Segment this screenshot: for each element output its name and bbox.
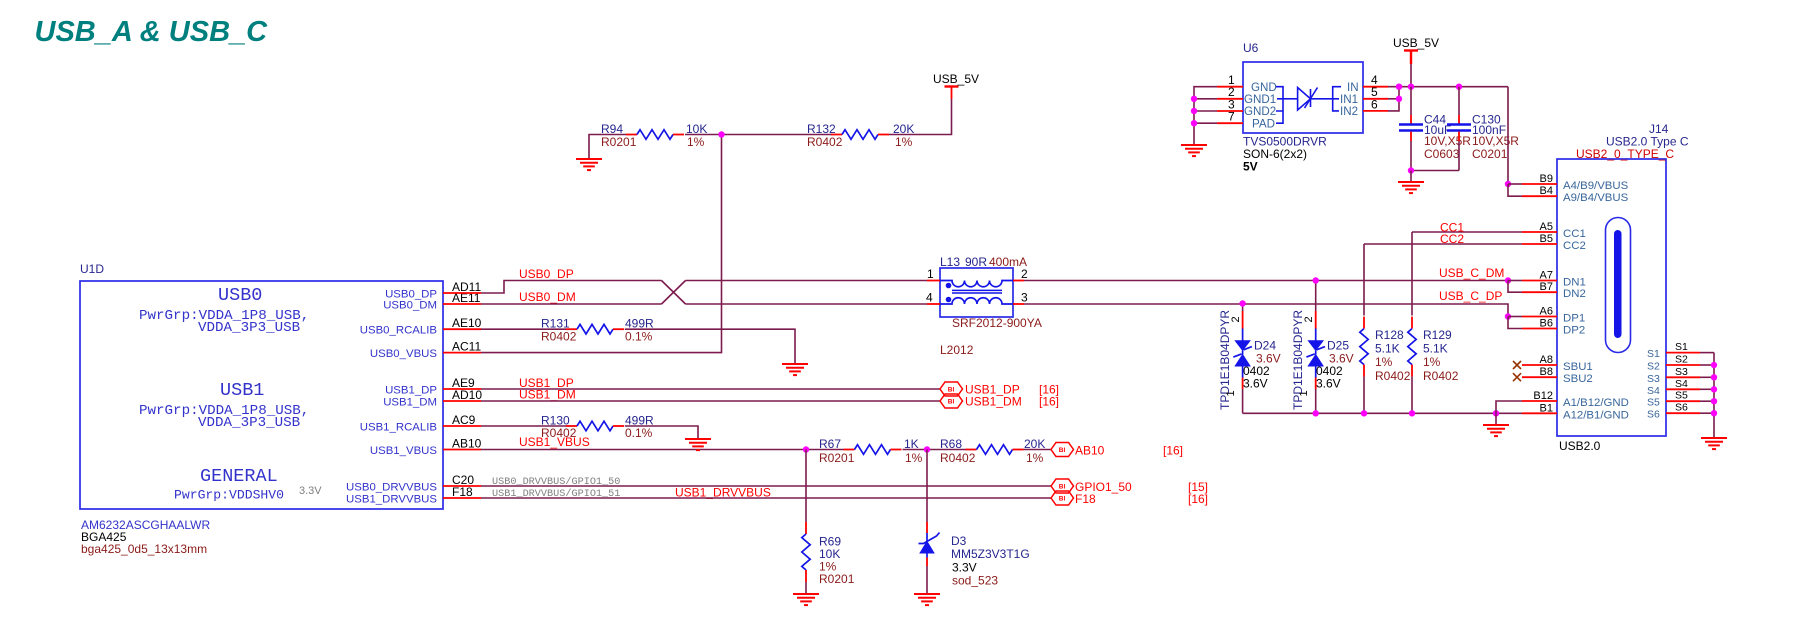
junction bus pin4	[1396, 84, 1402, 90]
wire R68 junction down to D3	[926, 450, 928, 523]
resistor R132 zigzag	[831, 134, 842, 136]
svg-text:IN2: IN2	[1340, 105, 1358, 118]
no-connect X at B8	[1513, 373, 1521, 381]
junction S bus	[1711, 386, 1717, 392]
ground at J14 left	[1483, 425, 1509, 436]
offpage connector AB10	[1051, 443, 1074, 457]
wire R128 bottom	[1363, 377, 1365, 414]
svg-text:90R: 90R	[965, 255, 987, 269]
svg-text:USB_5V: USB_5V	[1393, 36, 1439, 50]
svg-text:1%: 1%	[1375, 355, 1393, 369]
wire DM to A7/B7	[1505, 277, 1522, 292]
wire CC2 row	[1364, 243, 1522, 245]
svg-text:sod_523: sod_523	[952, 574, 998, 588]
svg-text:[16]: [16]	[1163, 444, 1183, 458]
svg-text:1: 1	[1225, 390, 1237, 396]
svg-text:B5: B5	[1540, 233, 1553, 245]
junction B12 branch	[1493, 410, 1499, 416]
svg-text:F18: F18	[1075, 492, 1096, 506]
wire CC2 down to R128	[1363, 244, 1365, 316]
junction A7/B7	[1505, 277, 1511, 283]
svg-text:SBU2: SBU2	[1563, 373, 1593, 385]
offpage connector F18	[1051, 491, 1074, 505]
svg-text:R0402: R0402	[940, 451, 976, 465]
svg-text:[16]: [16]	[1039, 395, 1059, 409]
svg-text:USB2.0: USB2.0	[1559, 439, 1601, 453]
svg-text:BI: BI	[1059, 447, 1066, 454]
wire VBUS down to J14	[1507, 87, 1509, 184]
wire DP junction to D24	[1242, 304, 1244, 312]
wire USB1_RCALIB to R130	[481, 425, 566, 427]
svg-text:1K: 1K	[904, 437, 919, 451]
resistor R67 zigzag	[844, 449, 855, 451]
svg-text:0.1%: 0.1%	[625, 330, 653, 344]
svg-text:R0402: R0402	[1375, 369, 1411, 383]
svg-text:USB_A & USB_C: USB_A & USB_C	[35, 16, 269, 48]
svg-text:1: 1	[1298, 390, 1310, 396]
U6 left pin stubs	[1217, 87, 1243, 124]
svg-text:1%: 1%	[905, 451, 923, 465]
svg-text:USB0_RCALIB: USB0_RCALIB	[360, 325, 437, 337]
svg-text:A5: A5	[1540, 221, 1553, 233]
resistor R68 zigzag	[966, 449, 977, 451]
svg-text:3.6V: 3.6V	[1243, 377, 1268, 391]
wire crossover DP to bottom	[662, 281, 686, 305]
svg-text:10V,X5R: 10V,X5R	[1472, 134, 1519, 148]
svg-text:D3: D3	[951, 534, 967, 548]
svg-text:2: 2	[1230, 316, 1242, 322]
common-mode choke L13 box	[940, 268, 1013, 317]
junction S bus	[1711, 398, 1717, 404]
svg-text:DP1: DP1	[1563, 313, 1585, 325]
svg-text:L2012: L2012	[940, 343, 974, 357]
svg-text:USB1_DRVVBUS: USB1_DRVVBUS	[346, 493, 437, 505]
svg-text:U1D: U1D	[80, 262, 104, 276]
junction D25 bottom	[1313, 410, 1319, 416]
wire USB0_VBUS from AC11 up to divider	[481, 135, 722, 353]
resistor R130 zigzag	[566, 425, 577, 427]
ground at R94	[576, 159, 602, 170]
U1D pin names	[346, 288, 437, 505]
svg-text:AB10: AB10	[452, 437, 482, 451]
svg-text:499R: 499R	[625, 317, 654, 331]
resistor R128 zigzag	[1363, 317, 1365, 329]
svg-text:BI: BI	[1059, 484, 1066, 491]
wire R94 to R132	[685, 134, 831, 136]
wire DP row to choke pin4	[686, 303, 928, 305]
svg-text:C0603: C0603	[1424, 147, 1460, 161]
svg-text:USB1_DP: USB1_DP	[385, 384, 437, 396]
svg-text:S6: S6	[1647, 409, 1660, 421]
U6 internal left bracket	[1276, 87, 1283, 124]
svg-text:AC11: AC11	[452, 340, 481, 354]
U6 right pin stubs	[1363, 87, 1388, 111]
wire R131 to ground drop	[625, 329, 795, 364]
svg-text:USB1_DM: USB1_DM	[383, 396, 437, 408]
svg-text:CC2: CC2	[1563, 240, 1586, 252]
USB-C icon outline	[1606, 218, 1631, 353]
ground at R130	[685, 439, 711, 450]
svg-text:R131: R131	[541, 317, 570, 331]
wire USB1_DRVVBUS row	[481, 497, 1051, 499]
L13 bottom polarity dot	[946, 297, 952, 303]
wire B12 branch	[1496, 401, 1522, 413]
wire S bus	[1700, 353, 1714, 438]
svg-text:U6: U6	[1243, 41, 1259, 55]
svg-text:3: 3	[1021, 291, 1028, 305]
wire caps to ground	[1410, 171, 1412, 183]
J14 right pin stubs S1-S6	[1666, 353, 1700, 414]
svg-text:20K: 20K	[1024, 437, 1045, 451]
svg-text:USB0_DRVVBUS: USB0_DRVVBUS	[346, 481, 437, 493]
svg-text:PwrGrp:VDDSHV0: PwrGrp:VDDSHV0	[174, 488, 284, 503]
offpage connector USB1_DM	[940, 394, 963, 408]
red stub USB_5V left	[951, 88, 953, 100]
svg-text:B9: B9	[1540, 173, 1553, 185]
capacitor C44	[1399, 87, 1423, 171]
svg-text:DP2: DP2	[1563, 325, 1585, 337]
svg-text:BI: BI	[948, 387, 955, 394]
svg-text:bga425_0d5_13x13mm: bga425_0d5_13x13mm	[81, 542, 207, 556]
svg-text:R0402: R0402	[807, 135, 843, 149]
svg-text:1%: 1%	[895, 135, 913, 149]
wire D25 top red stub	[1315, 311, 1317, 329]
svg-text:1%: 1%	[687, 135, 705, 149]
wire D25 bottom to bus	[1315, 378, 1317, 414]
ground at U6	[1181, 145, 1207, 156]
svg-text:[16]: [16]	[1188, 492, 1208, 506]
wire USB_C_DP row choke pin3	[1024, 304, 1508, 317]
wire USB1_VBUS row	[481, 449, 844, 451]
svg-text:R0402: R0402	[1423, 369, 1459, 383]
J14 left pin stubs	[1522, 184, 1557, 413]
junction pin5/pin6	[1396, 96, 1402, 102]
power USB_5V left symbol	[945, 85, 959, 87]
svg-text:R0402: R0402	[541, 330, 577, 344]
offpage connector GPIO1_50	[1051, 479, 1074, 493]
ground at R69	[793, 594, 819, 605]
svg-text:B6: B6	[1540, 318, 1553, 330]
svg-text:S1: S1	[1675, 341, 1688, 353]
junction U6 pin2	[1191, 96, 1197, 102]
svg-text:SBU1: SBU1	[1563, 361, 1593, 373]
wire R68 to AB10 offpage	[1024, 449, 1052, 451]
wire U6 pin5 up	[1388, 87, 1399, 99]
IC U1D box	[80, 281, 443, 509]
wire USB_5V drop	[1410, 64, 1412, 87]
svg-text:A12/B1/GND: A12/B1/GND	[1563, 409, 1629, 421]
svg-text:PAD: PAD	[1252, 117, 1275, 130]
svg-text:USB1_RCALIB: USB1_RCALIB	[360, 421, 437, 433]
svg-text:R0402: R0402	[541, 426, 577, 440]
svg-text:DN1: DN1	[1563, 277, 1586, 289]
svg-text:5.1K: 5.1K	[1375, 342, 1400, 356]
svg-text:R128: R128	[1375, 328, 1404, 342]
wire U6 pin6 up	[1388, 99, 1399, 111]
junction S bus	[1711, 362, 1717, 368]
svg-text:CC1: CC1	[1563, 228, 1586, 240]
U6 left wires to ground bus	[1194, 87, 1217, 145]
wire D24 bottom to bus	[1242, 378, 1244, 414]
svg-text:R68: R68	[940, 437, 962, 451]
wire USB0_DP from AD11 with jog	[481, 281, 662, 294]
wire R130 to ground drop	[625, 426, 698, 439]
svg-text:VDDA_3P3_USB: VDDA_3P3_USB	[198, 320, 300, 336]
IC U6 box	[1243, 62, 1363, 133]
wire D24 top red stub	[1242, 311, 1244, 329]
svg-text:A4/B9/VBUS: A4/B9/VBUS	[1563, 180, 1629, 192]
wire DM row to choke pin1	[686, 280, 928, 282]
svg-text:A1/B12/GND: A1/B12/GND	[1563, 397, 1629, 409]
junction S bus	[1711, 374, 1717, 380]
TVS diode D24	[1242, 329, 1244, 342]
junction D3/R68	[924, 446, 930, 452]
svg-text:B4: B4	[1540, 185, 1553, 197]
wire DM junction to D25	[1315, 281, 1317, 312]
svg-text:USB_C_DP: USB_C_DP	[1439, 289, 1502, 303]
junction R128 bottom	[1361, 410, 1367, 416]
resistor R129 zigzag	[1411, 317, 1413, 329]
svg-text:400mA: 400mA	[989, 255, 1027, 269]
U6 internal diode	[1283, 88, 1333, 111]
J14 right pin names S1-S6	[1647, 348, 1660, 421]
svg-text:SRF2012-900YA: SRF2012-900YA	[952, 316, 1042, 330]
svg-text:S3: S3	[1675, 366, 1688, 378]
wire USB1_DP to offpage	[481, 388, 940, 390]
J14 right outside labels S1-S6	[1675, 341, 1688, 414]
zener diode D3	[919, 533, 940, 558]
no-connect X at A8	[1513, 361, 1521, 369]
svg-text:S5: S5	[1675, 390, 1688, 402]
wire USB_C_DM row choke pin2 to J14	[1024, 280, 1508, 282]
svg-text:L13: L13	[940, 255, 960, 269]
svg-text:S3: S3	[1647, 373, 1660, 385]
svg-text:2: 2	[1303, 316, 1315, 322]
svg-text:USB_C_DM: USB_C_DM	[1439, 266, 1504, 280]
L13 pin stubs	[927, 281, 1024, 305]
L13 core lines	[952, 289, 1002, 291]
svg-text:USB0_DP: USB0_DP	[519, 267, 574, 281]
svg-text:1: 1	[927, 267, 934, 281]
svg-text:BI: BI	[948, 399, 955, 406]
svg-text:S1: S1	[1647, 348, 1660, 360]
svg-text:A7: A7	[1540, 270, 1553, 282]
U1D pin stubs	[443, 293, 481, 498]
power USB_5V right symbol	[1404, 51, 1418, 65]
svg-text:R129: R129	[1423, 328, 1452, 342]
svg-text:5.1K: 5.1K	[1423, 342, 1448, 356]
svg-text:B8: B8	[1540, 366, 1553, 378]
ground at caps	[1398, 182, 1424, 193]
svg-text:C0201: C0201	[1472, 147, 1508, 161]
wire USB0_RCALIB to R131	[481, 328, 566, 330]
wire R129 bottom	[1411, 377, 1413, 414]
wire R69 to ground	[805, 582, 807, 594]
svg-text:USB0_VBUS: USB0_VBUS	[370, 348, 438, 360]
svg-text:VDDA_3P3_USB: VDDA_3P3_USB	[198, 415, 300, 431]
U6 pin numbers	[1228, 73, 1378, 124]
svg-text:B1: B1	[1540, 402, 1553, 414]
svg-text:R94: R94	[601, 122, 623, 136]
svg-text:F18: F18	[452, 485, 473, 499]
svg-text:USB2_0_TYPE_C: USB2_0_TYPE_C	[1576, 147, 1674, 161]
wire D3 to ground	[926, 566, 928, 594]
junction R69/R67	[803, 446, 809, 452]
junction caps gnd	[1408, 167, 1414, 173]
wire R132 to USB_5V	[889, 99, 952, 135]
L13 bottom winding	[940, 298, 1013, 304]
svg-text:7: 7	[1228, 110, 1235, 124]
junction D25 top	[1313, 277, 1319, 283]
U6 pin names	[1244, 81, 1359, 130]
TVS diode D25	[1315, 329, 1317, 342]
junction D24 top	[1239, 300, 1245, 306]
svg-text:B7: B7	[1540, 281, 1553, 293]
svg-text:S5: S5	[1647, 397, 1660, 409]
D3 red stub top	[926, 522, 928, 533]
svg-text:AB10: AB10	[1075, 444, 1105, 458]
svg-text:AC9: AC9	[452, 413, 476, 427]
wire bus ground drop	[1495, 413, 1497, 425]
wire USB1_DM to offpage	[481, 400, 940, 402]
resistor R69 zigzag	[805, 522, 807, 534]
USB-C icon bar	[1614, 230, 1622, 338]
svg-text:BI: BI	[1059, 496, 1066, 503]
svg-text:S2: S2	[1675, 354, 1688, 366]
svg-text:USB1: USB1	[220, 380, 264, 401]
D3 red stub bottom	[926, 558, 928, 567]
junction R94/R132/VBUS	[718, 131, 724, 137]
junction B9/B4	[1505, 181, 1511, 187]
wire cap bottom bus	[1411, 170, 1459, 172]
svg-text:GENERAL: GENERAL	[200, 466, 278, 487]
connector J14 box	[1557, 159, 1666, 436]
svg-text:S4: S4	[1647, 385, 1660, 397]
ground at S bus	[1701, 438, 1727, 449]
svg-text:USB1_VBUS: USB1_VBUS	[370, 445, 438, 457]
svg-text:AE10: AE10	[452, 316, 482, 330]
resistor R131 zigzag	[566, 328, 577, 330]
svg-text:5V: 5V	[1243, 160, 1258, 174]
wire DP to A6/B6	[1505, 313, 1522, 328]
ground at D3	[914, 594, 940, 605]
svg-text:CC2: CC2	[1440, 232, 1464, 246]
junction U6 pin7	[1191, 120, 1197, 126]
svg-text:AD10: AD10	[452, 388, 482, 402]
svg-text:USB0: USB0	[218, 285, 262, 306]
junction S bus	[1711, 410, 1717, 416]
svg-text:B12: B12	[1533, 390, 1553, 402]
svg-text:S2: S2	[1647, 361, 1660, 373]
wire top bus U6 to J14	[1388, 86, 1508, 88]
junction USB_5V/C44	[1408, 84, 1414, 90]
svg-text:USB0_DM: USB0_DM	[519, 290, 576, 304]
svg-text:2: 2	[1021, 267, 1028, 281]
svg-text:3.3V: 3.3V	[952, 561, 977, 575]
svg-text:1%: 1%	[1423, 355, 1441, 369]
svg-text:S4: S4	[1675, 378, 1688, 390]
offpage connector USB1_DP	[940, 382, 963, 396]
svg-text:DN2: DN2	[1563, 288, 1586, 300]
L13 top winding	[940, 281, 1013, 287]
wire bottom ground bus	[1243, 412, 1522, 414]
J14 left pin names	[1563, 180, 1629, 421]
junction R129 bottom	[1409, 410, 1415, 416]
svg-text:R0201: R0201	[819, 572, 855, 586]
U1D pin numbers	[452, 280, 482, 499]
wire CC1 down to R129	[1411, 232, 1413, 316]
svg-text:A6: A6	[1540, 306, 1553, 318]
L13 top polarity dot	[946, 283, 952, 289]
wire USB0_DRVVBUS row	[481, 485, 1051, 487]
svg-text:R67: R67	[819, 437, 841, 451]
wire crossover DM to top	[662, 281, 686, 305]
svg-text:0.1%: 0.1%	[625, 426, 653, 440]
capacitor C130	[1447, 87, 1471, 171]
svg-text:10V,X5R: 10V,X5R	[1424, 134, 1471, 148]
junction A6/B6	[1505, 313, 1511, 319]
svg-text:1%: 1%	[1026, 451, 1044, 465]
resistor R94 zigzag	[626, 134, 637, 136]
junction C130	[1456, 84, 1462, 90]
wire CC1 row	[1412, 231, 1522, 233]
svg-text:USB0_DM: USB0_DM	[383, 299, 437, 311]
svg-text:S6: S6	[1675, 402, 1688, 414]
ground at R131	[782, 364, 808, 375]
wire between R67 and R68	[903, 449, 966, 451]
svg-text:A9/B4/VBUS: A9/B4/VBUS	[1563, 192, 1629, 204]
U6 internal right bracket	[1333, 87, 1341, 111]
svg-text:R0201: R0201	[819, 451, 855, 465]
wire to B4	[1508, 184, 1522, 196]
wire to B9	[1508, 183, 1522, 185]
wire USB0_DM from AE11	[481, 303, 662, 305]
svg-text:6: 6	[1371, 98, 1378, 112]
svg-text:4: 4	[926, 291, 933, 305]
junction U6 pin3	[1191, 108, 1197, 114]
J14 left pin numbers	[1533, 173, 1553, 414]
svg-text:USB_5V: USB_5V	[933, 72, 979, 86]
svg-text:GND2: GND2	[1244, 105, 1276, 118]
svg-text:3.6V: 3.6V	[1316, 377, 1341, 391]
svg-text:MM5Z3V3T1G: MM5Z3V3T1G	[951, 547, 1030, 561]
svg-text:USB1_DM: USB1_DM	[965, 395, 1022, 409]
svg-text:A8: A8	[1540, 354, 1553, 366]
wire R67 junction down to R69	[805, 450, 807, 523]
wire R94 left to ground	[589, 135, 626, 160]
svg-text:3.3V: 3.3V	[299, 485, 322, 497]
svg-text:R0201: R0201	[601, 135, 637, 149]
svg-text:R132: R132	[807, 122, 836, 136]
